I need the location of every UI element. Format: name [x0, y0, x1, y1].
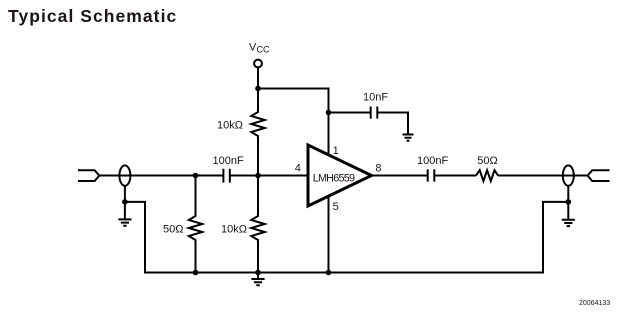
- svg-text:8: 8: [375, 163, 381, 175]
- svg-text:100nF: 100nF: [213, 155, 244, 167]
- svg-text:10nF: 10nF: [363, 92, 388, 104]
- svg-text:1: 1: [333, 145, 339, 157]
- svg-text:50Ω: 50Ω: [163, 224, 183, 236]
- svg-text:CC: CC: [257, 45, 270, 55]
- svg-text:100nF: 100nF: [417, 155, 448, 167]
- svg-text:5: 5: [333, 201, 339, 213]
- svg-text:LMH6559: LMH6559: [313, 172, 355, 184]
- svg-text:50Ω: 50Ω: [477, 155, 497, 167]
- svg-text:4: 4: [295, 162, 301, 174]
- svg-text:Typical Schematic: Typical Schematic: [8, 6, 177, 26]
- svg-text:10kΩ: 10kΩ: [221, 224, 247, 236]
- svg-text:10kΩ: 10kΩ: [217, 120, 243, 132]
- svg-text:20064133: 20064133: [579, 300, 610, 307]
